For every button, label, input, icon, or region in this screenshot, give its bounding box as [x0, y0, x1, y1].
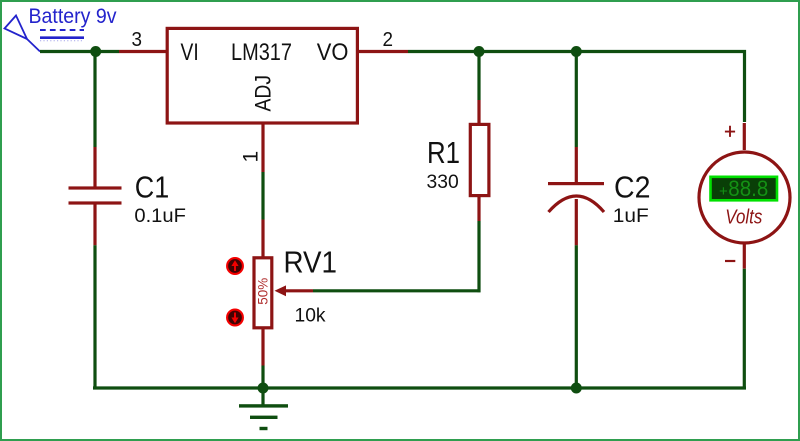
svg-text:R1: R1 — [427, 136, 460, 170]
svg-text:VO: VO — [317, 39, 349, 66]
wire voltmeter top lead red — [743, 123, 746, 150]
wire RV1 top lead red — [261, 220, 264, 258]
svg-text:RV1: RV1 — [284, 245, 338, 280]
regulator U1 LM317 body — [167, 28, 357, 123]
wire top rail green to voltmeter — [408, 52, 745, 123]
svg-text:C2: C2 — [614, 170, 651, 205]
voltmeter LCD display — [711, 176, 778, 201]
wire wiper green segment to R1 — [313, 289, 481, 292]
wire C2 top lead red — [575, 147, 578, 183]
svg-text:LM317: LM317 — [231, 39, 292, 66]
wire C1 top lead red — [93, 147, 96, 187]
RV1 increment button — [227, 258, 243, 274]
wire voltmeter to bottom rail green — [743, 269, 746, 390]
wire wiper red segment — [285, 289, 313, 292]
svg-text:330: 330 — [427, 172, 459, 193]
svg-text:50%: 50% — [256, 278, 271, 305]
node C junction dot (C2) — [571, 46, 582, 57]
ground symbol — [239, 388, 288, 430]
wire left branch green upper — [93, 52, 96, 148]
potentiometer RV1 body — [254, 258, 272, 328]
resistor R1 body — [470, 124, 489, 195]
capacitor C2 plates (polarized) — [548, 182, 604, 212]
wire bottom rail green — [93, 386, 746, 389]
wire RV1 bottom lead red — [261, 329, 264, 366]
wire C2 bottom lead red — [575, 199, 578, 245]
svg-text:Battery 9v: Battery 9v — [29, 4, 117, 28]
svg-text:10k: 10k — [295, 305, 326, 326]
node E junction dot (C2 bottom) — [571, 383, 582, 394]
wire C2 branch green upper — [575, 52, 578, 148]
svg-text:ADJ: ADJ — [251, 75, 276, 112]
label Battery 9v — [29, 4, 117, 41]
svg-text:3: 3 — [132, 29, 143, 51]
wire left branch green lower — [93, 245, 96, 389]
wire ADJ pin red upper — [261, 122, 264, 172]
svg-text:VI: VI — [181, 39, 199, 66]
wire R1 top lead red — [477, 100, 480, 125]
wire RV1 to ground rail green — [261, 366, 264, 389]
capacitor C1 plates — [69, 186, 122, 204]
wire C2 branch green lower — [575, 245, 578, 388]
svg-text:Volts: Volts — [725, 207, 762, 229]
battery terminal symbol — [5, 16, 41, 52]
RV1 decrement button — [227, 310, 243, 326]
wire R1 to wiper green — [477, 221, 480, 292]
node D junction dot (ground) — [258, 383, 269, 394]
svg-text:2: 2 — [383, 29, 394, 51]
wire pin2 red segment — [357, 50, 408, 53]
svg-text:1uF: 1uF — [613, 206, 649, 227]
node A junction dot — [90, 46, 101, 57]
voltmeter plus sign — [725, 126, 735, 137]
wire battery to node A (green) — [40, 50, 119, 53]
wire C1 bottom lead red — [93, 205, 96, 246]
svg-text:C1: C1 — [135, 169, 170, 204]
voltmeter body — [699, 152, 790, 243]
RV1 wiper arrow — [275, 285, 287, 296]
svg-text:1: 1 — [240, 151, 263, 163]
wire pin3 red segment — [119, 50, 167, 53]
svg-text:0.1uF: 0.1uF — [134, 206, 186, 227]
wire R1 bottom lead red — [477, 196, 480, 221]
node B junction dot (R1) — [474, 46, 485, 57]
voltmeter minus sign — [725, 260, 735, 262]
wire R1 branch green upper — [477, 52, 480, 101]
wire voltmeter bottom lead red — [743, 243, 746, 269]
wire ADJ green middle — [261, 172, 264, 220]
